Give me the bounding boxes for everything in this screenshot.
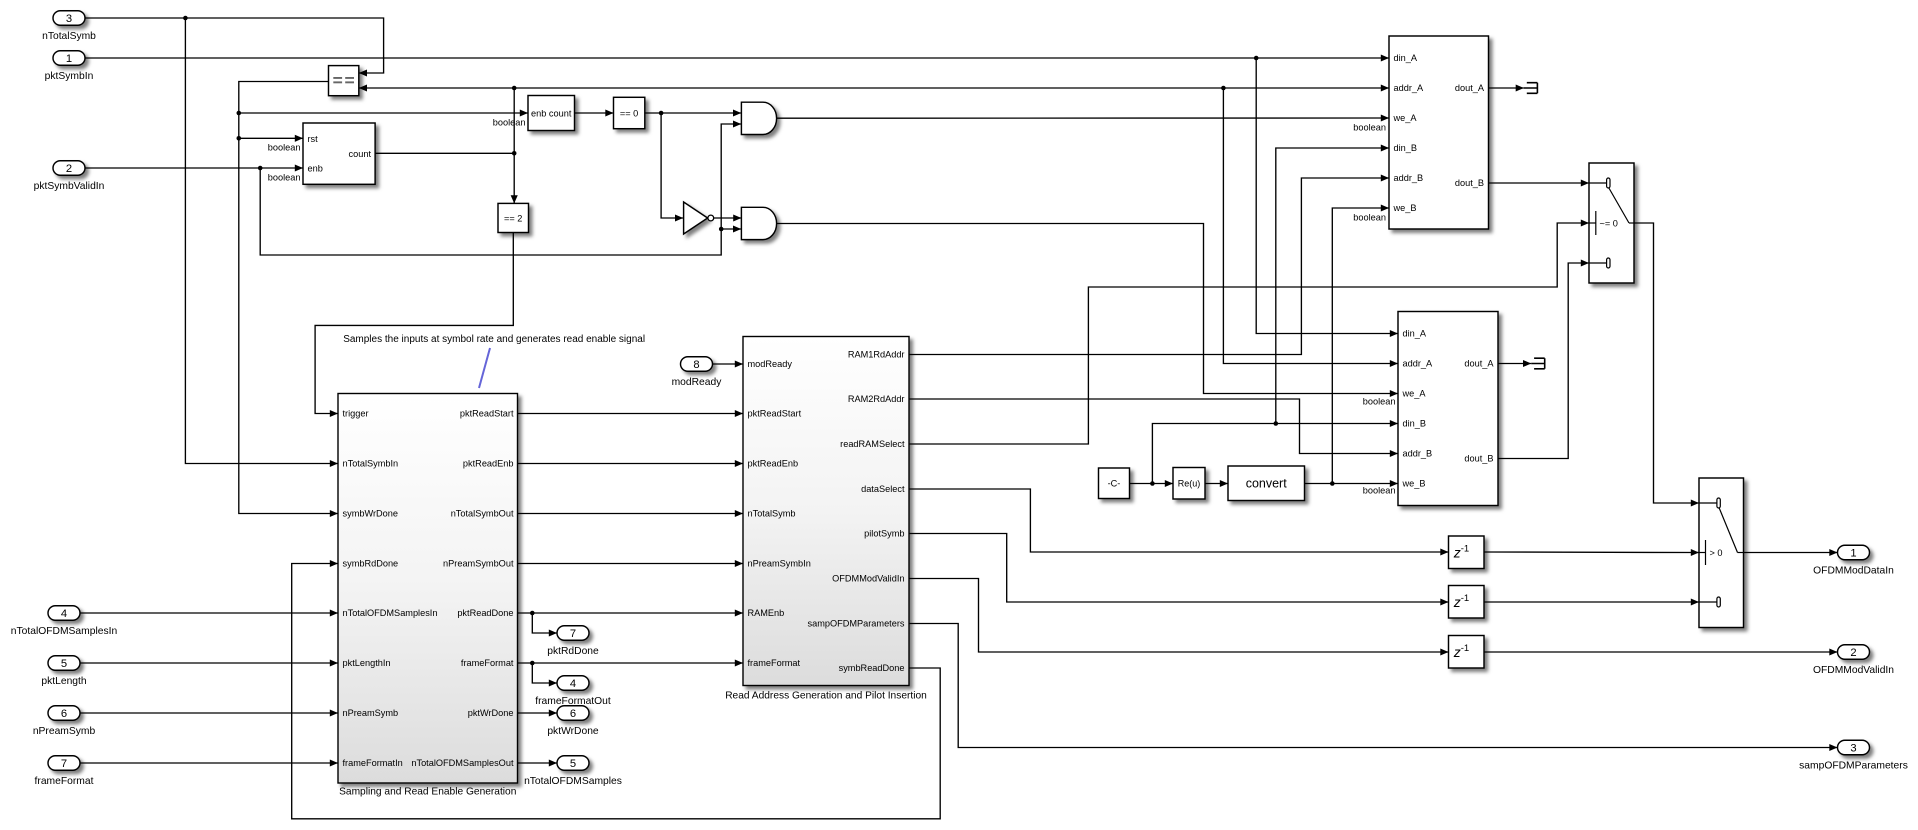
inport 4 nTotalOFDMSamplesIn xyxy=(11,606,118,637)
subsystem 'Read Address Generation and Pilot Insertion' xyxy=(725,337,927,702)
outport 2 OFDMModValidIn xyxy=(1813,645,1894,676)
outport 7 pktRdDone xyxy=(547,626,599,657)
wire constant branch to RAM2 din_B xyxy=(1152,424,1398,484)
svg-text:readRAMSelect: readRAMSelect xyxy=(840,439,905,449)
svg-text:frameFormat: frameFormat xyxy=(35,776,94,787)
AND gate A2 xyxy=(741,207,776,239)
wire count vertical to == 2 xyxy=(513,88,515,203)
wire NOT output to AND2 in1 xyxy=(714,217,742,219)
wire pktSymbIn branch to RAM2 din_A xyxy=(1256,58,1398,334)
wire nTotalSymb branch to nTotalSymbIn xyxy=(185,18,338,464)
svg-text:modReady: modReady xyxy=(672,377,723,388)
complex-to-real block Re(u) xyxy=(1173,468,1205,500)
wire RAM1 dout_A to terminator 1 xyxy=(1489,87,1524,89)
svg-text:pktWrDone: pktWrDone xyxy=(547,726,599,737)
junction constant branch din_B xyxy=(1150,481,1155,486)
svg-text:pktReadEnb: pktReadEnb xyxy=(748,459,799,469)
data type convert block xyxy=(1228,466,1305,501)
wire == 0 branch to NOT gate xyxy=(661,113,683,218)
wire pktSymbValidIn branch to AND1 in2 xyxy=(260,124,741,255)
svg-text:1: 1 xyxy=(1850,548,1856,560)
svg-text:2: 2 xyxy=(66,163,72,175)
svg-text:boolean: boolean xyxy=(1353,123,1386,133)
terminator 2 (RAM2 dout_A) xyxy=(1531,358,1545,369)
dual port RAM 2 xyxy=(1398,312,1498,506)
svg-text:Samples the inputs at symbol r: Samples the inputs at symbol rate and ge… xyxy=(343,334,645,345)
wire nTotalOFDMSamplesIn inport wire xyxy=(80,612,338,614)
svg-text:pktReadDone: pktReadDone xyxy=(457,608,513,618)
svg-text:we_A: we_A xyxy=(1402,389,1427,399)
svg-text:nTotalSymbIn: nTotalSymbIn xyxy=(343,459,399,469)
wire nTotalSymb to == in1 xyxy=(85,18,384,73)
svg-text:OFDMModValidIn: OFDMModValidIn xyxy=(832,574,904,584)
svg-text:4: 4 xyxy=(61,608,67,620)
svg-text:addr_B: addr_B xyxy=(1394,173,1424,183)
wire count bus to == in2 and RAM1 addr_A xyxy=(359,87,1389,89)
svg-text:pktReadStart: pktReadStart xyxy=(748,409,802,419)
inport 5 pktLength xyxy=(41,656,87,687)
wire switch '~= 0' output to switch '> 0' in1 xyxy=(1634,223,1699,503)
wire count bus branch to RAM2 addr_A xyxy=(1223,88,1398,364)
svg-text:pilotSymb: pilotSymb xyxy=(864,529,904,539)
svg-text:frameFormatIn: frameFormatIn xyxy=(343,758,403,768)
compare block == 2 xyxy=(498,203,529,232)
svg-text:nTotalOFDMSamplesOut: nTotalOFDMSamplesOut xyxy=(411,758,514,768)
svg-text:sampOFDMParameters: sampOFDMParameters xyxy=(1799,760,1908,771)
svg-text:RAM2RdAddr: RAM2RdAddr xyxy=(848,394,905,404)
wire == output to symbWrDone xyxy=(239,82,338,514)
svg-text:3: 3 xyxy=(1850,743,1856,755)
wire frameFormat inport wire xyxy=(80,762,338,764)
svg-text:-C-: -C- xyxy=(1108,479,1121,489)
wire AND1 output to RAM1 we_A xyxy=(777,117,1389,119)
wire pktSymbValidIn to counter enb xyxy=(85,167,303,169)
junction == output to rst xyxy=(237,136,242,141)
svg-text:nTotalSymbOut: nTotalSymbOut xyxy=(451,509,514,519)
svg-text:boolean: boolean xyxy=(268,172,301,182)
wire RAM2RdAddr to RAM2 addr_B xyxy=(909,399,1398,454)
wire pktSymbValidIn branch to AND2 in2 xyxy=(721,228,741,230)
wire count output to vertical xyxy=(375,152,514,154)
wire pktSymbIn to RAM1 din_A xyxy=(85,57,1389,59)
svg-text:trigger: trigger xyxy=(343,409,369,419)
inport 2 pktSymbValidIn xyxy=(34,161,105,192)
svg-text:2: 2 xyxy=(1850,647,1856,659)
wire constant branch to RAM1 din_B xyxy=(1276,148,1389,424)
wire enb count to == 0 xyxy=(575,112,614,114)
svg-text:symbWrDone: symbWrDone xyxy=(343,509,398,519)
wire RAM2 dout_A to terminator 2 xyxy=(1498,363,1531,365)
svg-text:RAM1RdAddr: RAM1RdAddr xyxy=(848,350,905,360)
svg-text:4: 4 xyxy=(570,678,576,690)
inport 3 nTotalSymb xyxy=(42,11,96,42)
wire convert to RAM2 we_B xyxy=(1305,483,1399,485)
svg-text:pktReadStart: pktReadStart xyxy=(460,409,514,419)
wire Re(u) to convert xyxy=(1205,483,1228,485)
svg-text:dout_B: dout_B xyxy=(1464,454,1493,464)
wire delay 1 to switch '> 0' control xyxy=(1484,551,1699,554)
svg-text:3: 3 xyxy=(66,13,72,25)
wire == output branch to counter rst xyxy=(239,137,303,139)
dual port RAM 1 xyxy=(1389,36,1489,229)
wire switch '> 0' output to outport 1 xyxy=(1744,552,1838,554)
svg-text:nTotalOFDMSamples: nTotalOFDMSamples xyxy=(524,776,622,787)
svg-text:6: 6 xyxy=(570,708,576,720)
svg-text:we_B: we_B xyxy=(1393,203,1417,213)
switch '~= 0' xyxy=(1589,163,1634,283)
wire RAM1RdAddr to RAM1 addr_B xyxy=(909,178,1389,355)
NOT gate xyxy=(684,202,714,234)
svg-text:enb: enb xyxy=(308,164,323,174)
svg-text:boolean: boolean xyxy=(493,118,526,128)
svg-text:nTotalOFDMSamplesIn: nTotalOFDMSamplesIn xyxy=(11,626,118,637)
junction count bus at x1223 xyxy=(1221,86,1226,91)
svg-text:pktWrDone: pktWrDone xyxy=(468,708,514,718)
wire RAM1 dout_B to switch '~= 0' in1 xyxy=(1489,182,1590,184)
wire RAM2 dout_B to switch '~= 0' in3 xyxy=(1498,263,1589,459)
svg-text:nPreamSymbOut: nPreamSymbOut xyxy=(443,559,514,569)
inport 6 nPreamSymb xyxy=(33,706,96,737)
svg-text:OFDMModValidIn: OFDMModValidIn xyxy=(1813,665,1894,676)
wire frameFormat to RAGPI frameFormat xyxy=(518,662,744,664)
wire nPreamSymb inport wire xyxy=(80,712,338,714)
svg-text:5: 5 xyxy=(570,758,576,770)
svg-text:dataSelect: dataSelect xyxy=(861,484,905,494)
AND gate A1 xyxy=(741,102,776,134)
wire == 0 output to AND1 in1 xyxy=(645,112,741,114)
wire constant to Re(u) xyxy=(1130,483,1174,485)
junction valid branch xyxy=(258,166,263,171)
svg-text:modReady: modReady xyxy=(748,359,793,369)
svg-text:enb count: enb count xyxy=(531,108,572,118)
inport 1 pktSymbIn xyxy=(45,51,94,82)
wire pilotSymb to delay 2 xyxy=(909,534,1449,603)
wire delay 3 to outport 2 xyxy=(1484,651,1838,653)
svg-text:addr_A: addr_A xyxy=(1403,359,1433,369)
svg-text:Read Address Generation and Pi: Read Address Generation and Pilot Insert… xyxy=(725,691,927,702)
svg-text:nTotalOFDMSamplesIn: nTotalOFDMSamplesIn xyxy=(343,608,438,618)
svg-text:7: 7 xyxy=(61,758,67,770)
svg-text:count: count xyxy=(349,149,372,159)
wire delay 2 to switch '> 0' in3 xyxy=(1484,601,1699,603)
counter block 'enb count' xyxy=(528,96,575,131)
switch '> 0' xyxy=(1699,478,1744,628)
inport 8 modReady xyxy=(672,357,723,388)
svg-text:rst: rst xyxy=(308,134,319,144)
svg-text:> 0: > 0 xyxy=(1710,548,1723,558)
svg-text:pktSymbIn: pktSymbIn xyxy=(45,71,94,82)
svg-text:boolean: boolean xyxy=(1363,397,1396,407)
svg-text:we_A: we_A xyxy=(1393,113,1418,123)
delay z^-1 #1 xyxy=(1449,536,1485,569)
wire convert branch to RAM1 we_B xyxy=(1332,208,1389,484)
wire frameFormat branch to outport 4 xyxy=(532,663,557,683)
outport 6 pktWrDone xyxy=(547,706,599,737)
svg-text:din_A: din_A xyxy=(1394,53,1418,63)
svg-text:nPreamSymb: nPreamSymb xyxy=(343,708,399,718)
relational operator == (flipped) xyxy=(329,66,359,96)
wire AND2 output to RAM2 we_A xyxy=(777,224,1398,394)
svg-text:addr_A: addr_A xyxy=(1394,83,1424,93)
svg-text:8: 8 xyxy=(693,359,699,371)
wire pktWrDone to outport 6 xyxy=(518,712,558,714)
svg-text:frameFormat: frameFormat xyxy=(748,658,801,668)
wire nTotalOFDMSamplesOut to outport 5 xyxy=(518,762,558,764)
inport 7 frameFormat xyxy=(35,756,94,787)
svg-text:~= 0: ~= 0 xyxy=(1600,218,1618,228)
svg-text:din_A: din_A xyxy=(1403,329,1427,339)
svg-text:pktLength: pktLength xyxy=(41,676,87,687)
junction nTotalSymb branch xyxy=(183,16,188,21)
compare block == 0 xyxy=(614,97,645,128)
svg-text:RAMEnb: RAMEnb xyxy=(748,608,785,618)
wire pktReadDone branch to outport 7 xyxy=(532,613,557,633)
junction pktSymbIn branch xyxy=(1254,56,1259,61)
wire == output branch to enb count xyxy=(239,112,528,114)
constant block -C- xyxy=(1099,468,1130,499)
junction ==0 output branch xyxy=(659,111,664,116)
svg-text:addr_B: addr_B xyxy=(1403,449,1433,459)
junction pktReadDone branch xyxy=(530,611,535,616)
annotation callout line xyxy=(479,348,490,388)
svg-text:== 0: == 0 xyxy=(620,108,638,118)
svg-text:5: 5 xyxy=(61,658,67,670)
outport 5 nTotalOFDMSamples xyxy=(524,756,622,787)
svg-text:frameFormat: frameFormat xyxy=(461,658,514,668)
junction == output to enb count xyxy=(237,111,242,116)
wire nTotalSymbOut to nTotalSymb xyxy=(518,513,744,515)
counter block (rst/enb/count) xyxy=(303,123,375,184)
wire OFDMModValidIn to delay 3 xyxy=(909,579,1449,653)
junction count output tee xyxy=(512,151,517,156)
svg-text:pktLengthIn: pktLengthIn xyxy=(343,658,391,668)
svg-text:pktSymbValidIn: pktSymbValidIn xyxy=(34,181,105,192)
wire pktReadEnb xyxy=(518,463,744,465)
junction convert branch we_B xyxy=(1330,481,1335,486)
svg-text:dout_B: dout_B xyxy=(1455,178,1484,188)
svg-text:din_B: din_B xyxy=(1403,419,1427,429)
svg-text:dout_A: dout_A xyxy=(1464,359,1494,369)
delay z^-1 #2 xyxy=(1449,586,1485,619)
wire modReady inport wire xyxy=(713,363,744,365)
svg-text:din_B: din_B xyxy=(1394,143,1418,153)
svg-text:1: 1 xyxy=(66,53,72,65)
outport 4 frameFormatOut xyxy=(535,676,611,707)
svg-text:nPreamSymbIn: nPreamSymbIn xyxy=(748,559,811,569)
wire == 2 output to trigger xyxy=(315,233,513,414)
outport 3 sampOFDMParameters xyxy=(1799,740,1908,771)
svg-text:symbRdDone: symbRdDone xyxy=(343,559,399,569)
wire sampOFDMParameters to outport 3 xyxy=(909,624,1838,748)
svg-text:Sampling and Read Enable Gener: Sampling and Read Enable Generation xyxy=(339,787,516,798)
wire dataSelect to delay 1 xyxy=(909,489,1449,552)
wire readRAMSelect to switch '~= 0' control xyxy=(909,223,1589,444)
svg-text:nTotalSymb: nTotalSymb xyxy=(42,31,96,42)
junction frameFormat branch xyxy=(530,661,535,666)
svg-text:pktReadEnb: pktReadEnb xyxy=(463,459,514,469)
svg-text:convert: convert xyxy=(1246,477,1288,491)
svg-text:Re(u): Re(u) xyxy=(1178,479,1201,489)
subsystem 'Sampling and Read Enable Generation' xyxy=(338,394,518,798)
svg-text:sampOFDMParameters: sampOFDMParameters xyxy=(808,619,905,629)
svg-text:dout_A: dout_A xyxy=(1455,83,1485,93)
wire pktReadDone to RAMEnb xyxy=(518,612,744,614)
wire pktReadStart xyxy=(518,413,744,415)
junction count bus at x514 xyxy=(512,86,517,91)
junction din_B branch up xyxy=(1274,421,1279,426)
wire symbReadDone feedback to symbRdDone xyxy=(292,564,941,819)
svg-text:OFDMModDataIn: OFDMModDataIn xyxy=(1813,565,1894,576)
svg-text:== 2: == 2 xyxy=(504,213,522,223)
wire pktLength inport wire xyxy=(80,662,338,664)
svg-text:7: 7 xyxy=(570,628,576,640)
svg-text:boolean: boolean xyxy=(1353,213,1386,223)
delay z^-1 #3 xyxy=(1449,636,1485,669)
svg-text:pktRdDone: pktRdDone xyxy=(547,646,599,657)
svg-text:nTotalSymb: nTotalSymb xyxy=(748,509,796,519)
svg-text:6: 6 xyxy=(61,708,67,720)
outport 1 OFDMModDataIn xyxy=(1813,545,1894,576)
svg-text:boolean: boolean xyxy=(268,143,301,153)
terminator 1 (RAM1 dout_A) xyxy=(1524,83,1538,94)
wire nPreamSymbOut to nPreamSymbIn xyxy=(518,563,744,565)
junction valid to AND2 in2 xyxy=(719,227,724,232)
svg-text:we_B: we_B xyxy=(1402,479,1426,489)
svg-text:nPreamSymb: nPreamSymb xyxy=(33,726,96,737)
svg-text:symbReadDone: symbReadDone xyxy=(839,663,905,673)
svg-text:boolean: boolean xyxy=(1363,486,1396,496)
